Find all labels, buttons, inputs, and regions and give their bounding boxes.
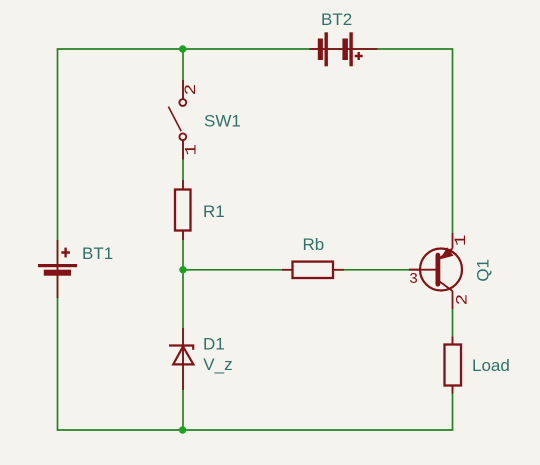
svg-text:V_z: V_z [203, 355, 232, 374]
svg-text:R1: R1 [203, 202, 225, 221]
svg-text:Load: Load [472, 356, 510, 375]
svg-text:1: 1 [453, 234, 471, 246]
svg-text:BT1: BT1 [82, 244, 113, 263]
svg-text:2: 2 [183, 84, 201, 96]
svg-text:1: 1 [183, 144, 201, 156]
svg-text:BT2: BT2 [321, 10, 352, 29]
svg-text:Rb: Rb [303, 235, 325, 254]
svg-text:2: 2 [454, 294, 472, 306]
svg-text:D1: D1 [203, 335, 225, 354]
svg-text:Q1: Q1 [474, 259, 493, 282]
svg-text:3: 3 [409, 271, 418, 288]
svg-text:SW1: SW1 [204, 112, 241, 131]
